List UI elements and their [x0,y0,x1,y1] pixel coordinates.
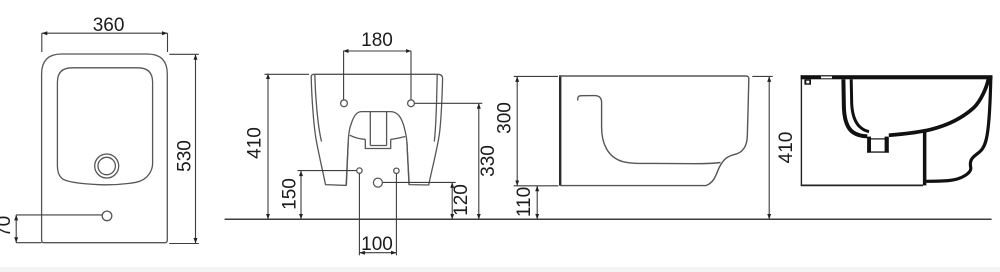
dim 300 top extension [514,75,558,77]
inner bowl profile [578,96,721,164]
fixing hole right [394,168,399,173]
svg-text:330: 330 [478,145,499,177]
dim 330 line [478,103,480,219]
tap hole circle [102,211,112,221]
pedestal front edge [923,132,927,186]
dim 180 ext right to hole [410,51,412,100]
dim 100 line [359,252,396,254]
drain box left wall [867,137,871,153]
rim bar slot [821,76,832,78]
right edge and bottom step [560,79,749,186]
central arch outline [346,112,409,185]
drain hole front [373,178,382,187]
body right outer edge down to right foot [407,79,443,185]
bowl rim valley left [350,135,366,139]
inner bowl outline [57,68,152,185]
dim 530 extension top [169,53,199,55]
body left inner parallel line [315,75,322,142]
svg-text:410: 410 [245,127,266,159]
wall edge (thick) [559,75,561,185]
dim 70 bottom extension [16,242,41,244]
drain box right wall [885,137,889,153]
dim 120 line [451,182,453,219]
dim 410 right top extension [752,75,772,77]
flush channel outer strip [843,79,867,136]
bottom thin edge [801,184,923,186]
dim 360 line [42,32,168,34]
dim 70 line [15,215,17,243]
mounting hole right [408,100,415,107]
outer rim outline [42,54,168,243]
drain box bottom line [867,151,889,152]
dim 150 line [300,171,302,220]
dim 70 top extension to tap hole [16,214,102,216]
body top edge [311,74,442,79]
dim 180 line [343,50,411,52]
body left outer edge down to left foot [311,77,348,185]
drain circle outer [95,154,119,178]
tap column bottom [370,145,386,147]
tap column right line [386,112,388,146]
rim lip hollow [806,81,809,84]
rim lip block [804,79,811,84]
trap leg wavy outline [926,78,991,182]
mounting hole left [341,100,348,107]
dim 110 line [536,186,538,220]
drain box top line [869,138,885,139]
svg-text:180: 180 [361,30,393,51]
bowl rim valley right [391,137,406,140]
ground line [225,218,992,220]
dim 360 extension left [41,33,43,52]
dim 410 right line [768,76,770,219]
svg-text:360: 360 [93,15,125,36]
svg-text:120: 120 [451,184,472,216]
dim 180 ext left to hole [343,51,345,100]
svg-text:110: 110 [514,187,535,217]
svg-text:530: 530 [175,140,196,172]
dim 410 left top extension [265,73,310,75]
drain circle inner [98,157,115,174]
svg-text:410: 410 [776,132,797,164]
top rim bar [801,75,993,79]
dim 360 extension right [167,33,169,52]
dim 300/110 shared extension [514,185,559,187]
dim 530 extension bottom [169,243,199,245]
dim 330 top extension [415,102,483,104]
svg-text:300: 300 [495,102,516,134]
body right inner parallel line [434,75,437,142]
dim 150 top extension [298,170,357,172]
tap collar [365,139,390,148]
bottom scan band [0,267,1000,272]
dim 100 ext left [358,174,360,256]
flush channel inner strip [851,79,869,131]
dim 300 line [516,76,518,185]
fixing hole left [357,168,362,173]
svg-text:70: 70 [0,216,15,237]
dim 530 line [195,54,197,243]
top edge [559,76,749,79]
bowl back wall thick band [889,79,989,136]
tap column left line [369,112,371,146]
svg-text:150: 150 [280,178,301,210]
svg-text:100: 100 [361,234,393,255]
dim 120 top extension [383,181,456,183]
dim 100 ext right [395,174,397,256]
dim 410 left line [267,74,269,220]
left thin edge [800,75,802,185]
